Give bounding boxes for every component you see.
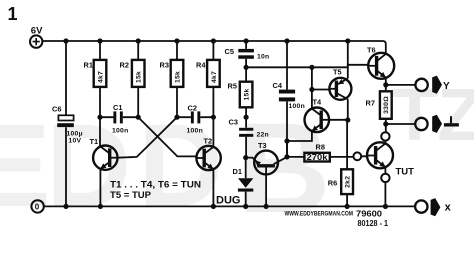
svg-text:100n: 100n: [289, 103, 306, 110]
svg-text:T3: T3: [258, 141, 267, 150]
svg-text:C5: C5: [225, 47, 234, 56]
svg-text:10V: 10V: [69, 138, 82, 145]
svg-text:DUG: DUG: [216, 195, 240, 207]
svg-text:T5 = TUP: T5 = TUP: [110, 190, 151, 200]
svg-text:R1: R1: [84, 61, 93, 70]
svg-text:T1 . . . T4, T6 = TUN: T1 . . . T4, T6 = TUN: [110, 179, 201, 189]
svg-text:1: 1: [8, 4, 18, 24]
svg-text:15k: 15k: [175, 71, 182, 83]
svg-text:0: 0: [35, 202, 40, 211]
svg-text:330Ω: 330Ω: [383, 96, 390, 114]
svg-text:B: B: [238, 97, 330, 240]
svg-text:80128 - 1: 80128 - 1: [358, 219, 389, 228]
svg-text:C3: C3: [229, 117, 238, 126]
svg-text:R6: R6: [328, 179, 337, 188]
svg-text:T2: T2: [204, 137, 213, 146]
svg-text:TUT: TUT: [396, 167, 415, 178]
svg-text:2k2: 2k2: [345, 176, 352, 188]
svg-text:4k7: 4k7: [211, 71, 218, 83]
svg-text:R7: R7: [366, 99, 375, 108]
svg-text:T5: T5: [333, 68, 342, 77]
svg-text:R2: R2: [120, 61, 129, 70]
svg-text:D1: D1: [233, 167, 242, 176]
svg-text:x: x: [445, 202, 452, 214]
svg-text:R8: R8: [316, 143, 325, 152]
svg-text:100n: 100n: [112, 128, 129, 135]
svg-text:T4: T4: [313, 98, 323, 107]
svg-text:15k: 15k: [136, 71, 143, 83]
svg-text:R3: R3: [160, 61, 169, 70]
svg-text:C2: C2: [188, 104, 197, 113]
svg-text:Y: Y: [443, 81, 450, 92]
svg-text:T1: T1: [90, 137, 99, 146]
svg-text:100µ: 100µ: [67, 131, 83, 138]
svg-text:E: E: [0, 100, 51, 232]
svg-text:22n: 22n: [257, 131, 269, 138]
svg-text:C1: C1: [113, 103, 122, 112]
svg-text:10n: 10n: [257, 54, 269, 61]
svg-text:T6: T6: [367, 46, 376, 55]
svg-text:15k: 15k: [244, 88, 251, 100]
svg-text:6V: 6V: [31, 25, 43, 36]
svg-text:100n: 100n: [187, 128, 204, 135]
svg-text:C6: C6: [52, 105, 61, 114]
svg-text:C4: C4: [273, 81, 283, 90]
svg-text:WWW.EDDYBERGMAN.COM: WWW.EDDYBERGMAN.COM: [285, 211, 354, 217]
svg-text:79600: 79600: [356, 209, 382, 219]
svg-text:R4: R4: [196, 61, 206, 70]
svg-text:4k7: 4k7: [98, 71, 105, 83]
svg-text:R5: R5: [228, 81, 237, 90]
svg-text:270k: 270k: [307, 153, 329, 162]
